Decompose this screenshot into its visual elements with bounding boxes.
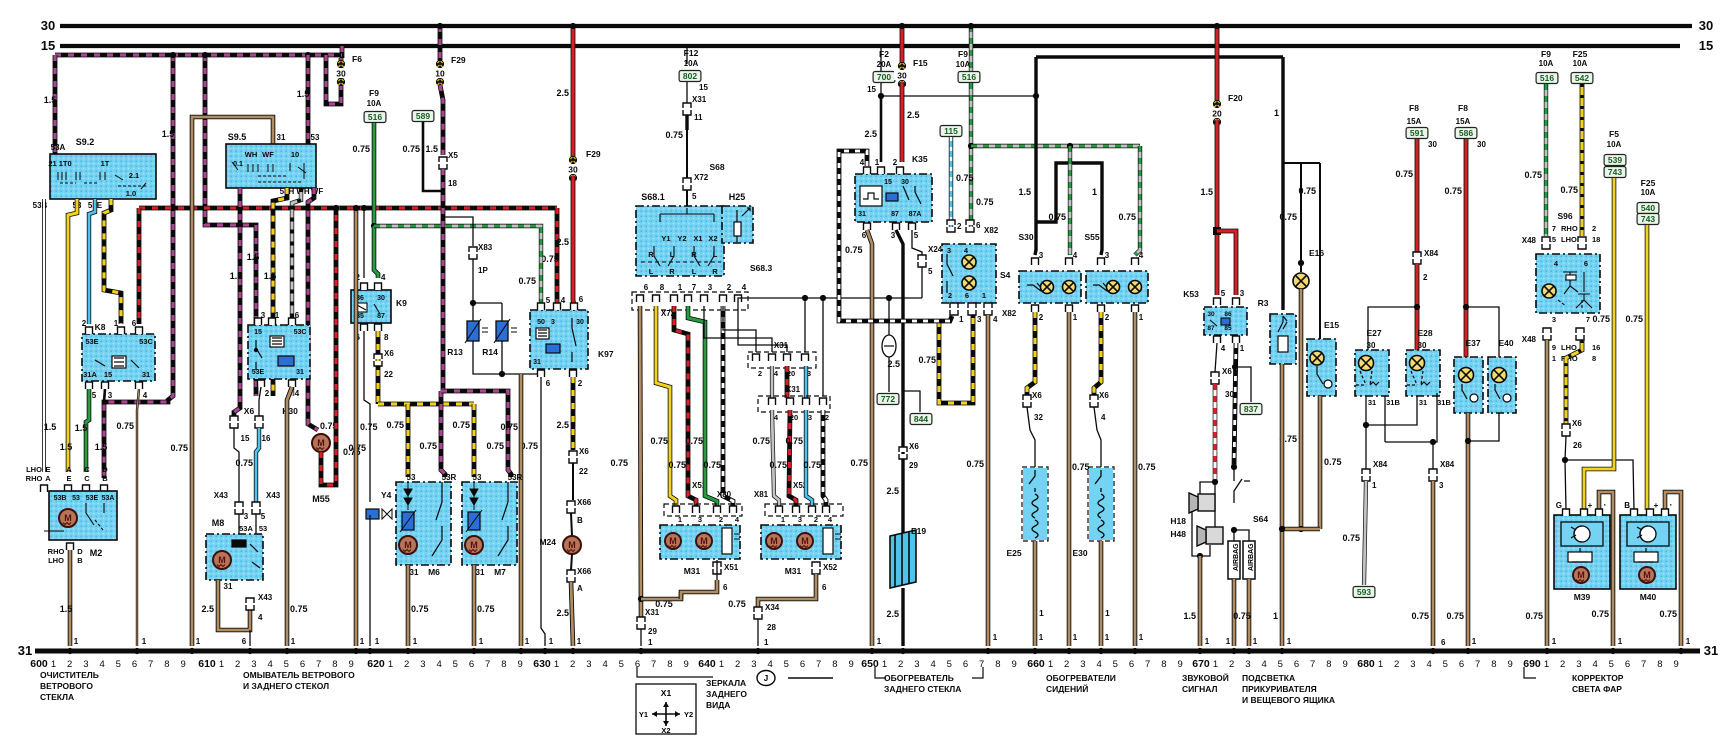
wire X83 to resistors: [473, 259, 502, 303]
connector X82-1: [950, 303, 958, 315]
wire link to X31-2 row2: [822, 298, 824, 396]
junction X84-3 bus: [1430, 648, 1436, 654]
wire striped to M7-53R: [441, 391, 511, 477]
connector X48-16: [1576, 328, 1584, 340]
pin K8-5: [86, 382, 93, 389]
svg-text:30: 30: [1207, 311, 1215, 318]
wire H18 ground: [1192, 511, 1200, 556]
junction S68-6 bus: [638, 648, 644, 654]
svg-text:ЗВУКОВОЙ: ЗВУКОВОЙ: [1182, 672, 1229, 683]
svg-text:B: B: [77, 556, 83, 565]
wire K35-6 tan to bus: [867, 230, 872, 646]
svg-text:6: 6: [469, 659, 474, 670]
svg-text:2: 2: [957, 222, 962, 231]
svg-text:4: 4: [295, 389, 300, 398]
pin K8-1: [118, 327, 125, 334]
svg-text:3: 3: [420, 659, 425, 670]
wire M7 ground tan: [472, 565, 477, 646]
svg-text:0.75: 0.75: [486, 441, 504, 451]
junction M6 bus: [405, 648, 411, 654]
svg-text:5: 5: [947, 659, 952, 670]
svg-text:X84: X84: [1424, 249, 1439, 258]
svg-text:1.5: 1.5: [44, 422, 57, 432]
svg-text:M2: M2: [90, 548, 103, 558]
wire S68-4 link long: [738, 298, 922, 306]
fuse F15 symbol: [894, 62, 910, 87]
E27 internal switch: [1356, 371, 1379, 385]
relay K30 box: [248, 325, 310, 379]
connector X6 E25: [1023, 395, 1031, 407]
svg-text:S68.1: S68.1: [641, 192, 665, 202]
fusebox 802: [679, 71, 701, 82]
svg-text:743: 743: [1608, 167, 1622, 177]
svg-text:5: 5: [1113, 659, 1118, 670]
junction link 805: [802, 295, 808, 301]
svg-text:539: 539: [1608, 155, 1622, 165]
svg-text:1: 1: [1073, 313, 1078, 322]
svg-text:53: 53: [72, 495, 80, 502]
wire K35-3 black to E19: [896, 230, 903, 536]
wire jumper red: [785, 366, 790, 398]
wire M24 to X66-A: [571, 554, 572, 570]
wire X51 tan hook: [681, 580, 717, 599]
svg-text:20: 20: [1212, 108, 1222, 118]
junction striped x308: [305, 52, 311, 58]
junction tan x356 bus: [353, 648, 359, 654]
wire M2 ground tan: [68, 550, 73, 646]
wire F2 thin right: [881, 95, 1036, 97]
svg-text:0.75: 0.75: [785, 436, 803, 446]
svg-text:X48: X48: [1522, 335, 1537, 344]
fusebox 516 left: [364, 112, 386, 123]
wire X6 to X66 B: [572, 463, 574, 500]
svg-text:9: 9: [683, 659, 688, 670]
fuse F29-2 symbol: [565, 156, 581, 181]
svg-text:18: 18: [448, 179, 457, 188]
svg-text:X6: X6: [1222, 367, 1232, 376]
svg-text:2.5: 2.5: [907, 110, 920, 120]
svg-text:X31: X31: [774, 341, 789, 350]
svg-text:0.75: 0.75: [419, 441, 437, 451]
svg-text:4: 4: [267, 659, 272, 670]
svg-text:30: 30: [377, 295, 385, 302]
svg-text:53: 53: [311, 133, 320, 142]
wire link to X31-3: [804, 298, 806, 352]
svg-text:0.75: 0.75: [402, 144, 420, 154]
svg-text:2.5: 2.5: [556, 88, 569, 98]
junction K30-4 bus: [284, 648, 290, 654]
wire horn red-white: [1213, 384, 1218, 482]
wire black feed right corner: [1281, 57, 1284, 310]
svg-text:4: 4: [602, 659, 607, 670]
junction E19 bus: [900, 648, 906, 654]
svg-text:8: 8: [332, 659, 337, 670]
junction X43-4 bus: [247, 648, 253, 654]
wire leveling to M39-G: [1565, 460, 1566, 510]
pin X31r2-4: [769, 398, 776, 405]
svg-text:600: 600: [30, 658, 48, 670]
connector X82-3: [968, 303, 976, 315]
relay K8 box: [82, 334, 155, 381]
svg-text:10A: 10A: [1539, 59, 1554, 68]
svg-text:0.75: 0.75: [665, 130, 683, 140]
svg-text:X1: X1: [661, 688, 672, 698]
svg-text:8: 8: [832, 659, 837, 670]
fusebox 539: [1604, 155, 1626, 166]
svg-text:1: 1: [648, 638, 653, 647]
wire E27-31 down: [1365, 396, 1367, 469]
wire leveling to M40-B: [1565, 460, 1634, 510]
wire F20 red from bus30: [1215, 26, 1220, 106]
svg-text:K35: K35: [912, 154, 928, 164]
wire S55-2 striped: [1094, 312, 1101, 395]
lamp E28 box: [1406, 350, 1440, 396]
svg-text:3: 3: [108, 391, 113, 400]
switch S30 box: [1019, 271, 1081, 303]
svg-text:0.75: 0.75: [116, 421, 134, 431]
pin K35-1: [878, 167, 885, 174]
junction E27 ground: [1363, 422, 1369, 428]
junction S64 top: [1231, 464, 1237, 470]
fusebox 743 b: [1637, 214, 1659, 225]
wire yellow drop M7-53: [472, 404, 477, 477]
wire X81-3 black-red: [789, 410, 796, 507]
svg-text:680: 680: [1357, 658, 1375, 670]
svg-text:31: 31: [224, 582, 233, 591]
wire X82-4 tan to bus: [986, 315, 991, 646]
svg-text:1: 1: [1552, 354, 1556, 363]
svg-text:31: 31: [142, 370, 150, 379]
svg-text:X82: X82: [984, 226, 999, 235]
svg-text:0.1: 0.1: [233, 161, 243, 168]
svg-text:700: 700: [877, 72, 891, 82]
svg-text:5: 5: [1609, 659, 1614, 670]
junction link 889: [886, 295, 892, 301]
junction airbag1 bus: [1231, 648, 1237, 654]
connector X51: [713, 562, 721, 574]
S9.5 internal contacts: [232, 162, 306, 182]
junction airbag split: [1231, 527, 1237, 533]
svg-text:0.75: 0.75: [650, 436, 668, 446]
S30 internal switch: [1027, 283, 1044, 291]
pin S68-2: [720, 295, 727, 302]
lamp S4 lower: [962, 276, 976, 290]
svg-text:87: 87: [377, 313, 385, 320]
svg-text:M40: M40: [1640, 592, 1657, 602]
svg-text:S4: S4: [1000, 270, 1011, 280]
svg-text:1: 1: [291, 637, 296, 646]
svg-text:4: 4: [258, 613, 263, 622]
svg-text:0.75: 0.75: [1592, 314, 1610, 324]
svg-text:8: 8: [1491, 659, 1496, 670]
connector strip S68 bottom: [632, 292, 748, 310]
svg-text:8: 8: [164, 659, 169, 670]
svg-text:И ВЕЩЕВОГО ЯЩИКА: И ВЕЩЕВОГО ЯЩИКА: [1242, 695, 1335, 705]
motor M6 symbol: [399, 536, 417, 554]
svg-text:X34: X34: [765, 603, 780, 612]
caption washer: [243, 670, 355, 691]
junction leveling split: [1562, 457, 1568, 463]
svg-text:30: 30: [1428, 140, 1437, 149]
svg-text:1: 1: [1372, 481, 1377, 490]
wire S9.5-31 tan loop to bus: [192, 117, 273, 646]
wire horn to H18: [1200, 482, 1215, 496]
svg-text:26: 26: [1573, 441, 1582, 450]
wire K35-4 black-white striped: [839, 151, 952, 321]
svg-text:1.5: 1.5: [425, 144, 438, 154]
svg-text:2.5: 2.5: [556, 608, 569, 618]
svg-text:1: 1: [1552, 637, 1557, 646]
relay K35 box: [855, 174, 932, 222]
pin S55-4: [1132, 258, 1139, 265]
svg-text:591: 591: [1410, 128, 1424, 138]
svg-text:15: 15: [41, 38, 55, 53]
connector X66-B: [567, 501, 575, 513]
legend J oval: [757, 671, 833, 686]
junction horn ground: [1197, 553, 1203, 559]
heater E30 fill: [1089, 468, 1113, 540]
svg-text:C: C: [84, 465, 90, 474]
svg-text:6: 6: [1584, 259, 1588, 268]
wire resistor bottoms: [473, 341, 541, 374]
svg-text:1.5: 1.5: [44, 95, 57, 105]
M2 internal switch: [44, 503, 104, 531]
svg-text:СИДЕНИЙ: СИДЕНИЙ: [1046, 683, 1088, 694]
svg-text:X31: X31: [786, 385, 801, 394]
svg-text:X6: X6: [384, 349, 394, 358]
svg-text:9: 9: [1177, 659, 1182, 670]
svg-text:5: 5: [914, 231, 919, 240]
svg-text:1: 1: [1139, 633, 1144, 642]
svg-text:0.75: 0.75: [500, 422, 518, 432]
svg-text:2: 2: [758, 369, 762, 378]
pin K30-6: [289, 318, 296, 325]
svg-text:X81: X81: [754, 490, 769, 499]
svg-text:D: D: [77, 547, 83, 556]
wire green-gray to S30-4: [1068, 146, 1072, 255]
wire F20 red to K53-5: [1215, 120, 1220, 295]
wire S68-2 link: [723, 306, 756, 352]
junction E28 31B: [1430, 439, 1436, 445]
wire X43-3 to M8: [238, 514, 240, 534]
svg-text:M: M: [218, 555, 226, 565]
indicator oval symbol: [882, 335, 896, 357]
junction bus30 F29-1: [437, 23, 443, 29]
svg-text:X6: X6: [1572, 419, 1582, 428]
svg-text:87: 87: [1207, 325, 1215, 332]
wire S55-1 tan: [1133, 312, 1138, 646]
svg-text:5: 5: [928, 267, 933, 276]
svg-text:3: 3: [1080, 659, 1085, 670]
wire K97-2 yellow-black: [571, 377, 576, 450]
svg-text:0.75: 0.75: [235, 458, 253, 468]
wire green-gray to K97-5: [374, 226, 541, 305]
svg-text:30: 30: [901, 179, 909, 186]
svg-text:B: B: [577, 516, 583, 525]
fuse F6 symbol: [333, 60, 349, 85]
wire X34 to bus: [757, 619, 759, 646]
svg-text:8: 8: [1326, 659, 1331, 670]
heater E30 box: [1088, 467, 1114, 541]
svg-text:11: 11: [694, 113, 703, 122]
wire link 787: [738, 306, 787, 352]
svg-text:516: 516: [962, 72, 976, 82]
svg-text:L: L: [649, 267, 654, 276]
svg-text:AIRBAG: AIRBAG: [1233, 543, 1240, 571]
connector X34: [754, 607, 762, 619]
svg-text:7: 7: [1145, 659, 1150, 670]
connector X83: [469, 247, 477, 259]
svg-text:1.5: 1.5: [297, 89, 310, 99]
svg-text:E30: E30: [1072, 548, 1087, 558]
label box AIRBAG 2: [1243, 541, 1255, 579]
svg-text:1.5: 1.5: [60, 604, 73, 614]
svg-text:0.75: 0.75: [477, 604, 495, 614]
svg-text:R: R: [648, 250, 654, 259]
svg-text:660: 660: [1027, 658, 1045, 670]
svg-text:1.5: 1.5: [1018, 187, 1031, 197]
wire yellow horizontal: [378, 402, 474, 407]
pin X81-3: [793, 506, 800, 513]
svg-text:1P: 1P: [478, 266, 488, 275]
pin M2-E: [41, 485, 48, 492]
fusebox 700: [873, 72, 895, 83]
wire to X84-3: [1432, 442, 1434, 469]
svg-text:0.75: 0.75: [518, 276, 536, 286]
svg-text:E16: E16: [1309, 248, 1324, 258]
junction K97-31 bus: [542, 648, 548, 654]
svg-text:X66: X66: [577, 498, 592, 507]
svg-text:15: 15: [699, 83, 708, 92]
svg-text:X52: X52: [823, 563, 838, 572]
svg-text:30: 30: [568, 164, 578, 174]
svg-text:30: 30: [1699, 18, 1713, 33]
svg-text:6: 6: [965, 291, 969, 300]
svg-text:30: 30: [897, 70, 907, 80]
wire F12 thick segment: [685, 115, 688, 130]
svg-text:X2: X2: [661, 726, 670, 735]
svg-text:M7: M7: [494, 567, 506, 577]
wire tan link E15 R3: [1282, 527, 1320, 532]
svg-text:4: 4: [1221, 344, 1226, 353]
pin M39-plus: [1581, 509, 1588, 516]
wire M8 ground tan: [218, 580, 250, 630]
svg-text:И ЗАДНЕГО СТЕКОЛ: И ЗАДНЕГО СТЕКОЛ: [243, 681, 329, 691]
M7 internal switch: [498, 482, 508, 556]
svg-text:1: 1: [142, 637, 147, 646]
wire S68-7 green: [688, 306, 717, 507]
junction tan x521 bus: [518, 648, 524, 654]
svg-text:СВЕТА ФАР: СВЕТА ФАР: [1572, 684, 1622, 694]
wire X84-2 red down: [1415, 264, 1420, 350]
M40 headlight symbol: [1627, 522, 1669, 546]
R3 internal symbol: [1278, 316, 1288, 352]
svg-text:R3: R3: [1258, 298, 1269, 308]
svg-text:7: 7: [816, 659, 821, 670]
svg-text:4: 4: [767, 659, 772, 670]
connector X43-5: [252, 502, 260, 514]
junction E40 feed: [1463, 304, 1469, 310]
wire 53 feed red-black horizontal: [139, 206, 557, 211]
svg-text:1: 1: [1240, 344, 1245, 353]
switch S64 symbol: [1234, 467, 1250, 503]
wire F25b yellow down: [1645, 225, 1650, 510]
svg-text:0.75: 0.75: [752, 436, 770, 446]
svg-text:M24: M24: [539, 537, 556, 547]
motor M2 symbol: [59, 509, 77, 527]
svg-text:K8: K8: [95, 322, 106, 332]
wire striped drop to S9.5-53: [306, 55, 311, 145]
wire defogger feed horizontal: [1036, 55, 1283, 58]
svg-text:1.5: 1.5: [1183, 611, 1196, 621]
pin X81-4: [823, 506, 830, 513]
lamp E15 box: [1307, 339, 1336, 396]
wire striped drop to S9.2-53A: [53, 55, 58, 155]
lamp E37 box: [1454, 357, 1483, 413]
svg-text:F12: F12: [684, 48, 699, 58]
svg-text:LHO: LHO: [48, 556, 64, 565]
svg-text:0.75: 0.75: [966, 459, 984, 469]
svg-text:0.75: 0.75: [728, 599, 746, 609]
svg-text:16: 16: [262, 434, 271, 443]
junction 837 tee: [1232, 364, 1238, 370]
svg-text:1: 1: [678, 515, 682, 524]
svg-text:0.75: 0.75: [1342, 533, 1360, 543]
pin S30-4: [1066, 258, 1073, 265]
K35 internal symbol: [860, 186, 921, 206]
svg-text:2.5: 2.5: [201, 604, 214, 614]
pin K30-2: [258, 380, 265, 387]
fusebox 844: [910, 414, 932, 425]
M7 thermal resistor: [468, 512, 480, 530]
svg-text:7: 7: [148, 659, 153, 670]
heater element E19: [890, 530, 916, 588]
svg-text:F29: F29: [586, 149, 601, 159]
junction S30-1 bus: [1066, 648, 1072, 654]
svg-text:8: 8: [384, 333, 389, 342]
svg-text:S9.5: S9.5: [228, 132, 247, 142]
svg-text:31A: 31A: [83, 370, 97, 379]
svg-text:0.75: 0.75: [1444, 186, 1462, 196]
svg-text:1: 1: [764, 638, 769, 647]
svg-text:3: 3: [891, 231, 896, 240]
connector X48-2: [1578, 237, 1586, 249]
wire E16 tan down: [1299, 289, 1304, 529]
wire F2 stub: [880, 46, 882, 71]
wire K9-8 yellow-black down: [376, 331, 381, 404]
M39 potentiometer: [1568, 548, 1592, 562]
svg-text:5: 5: [1443, 659, 1448, 670]
svg-text:21 1T0: 21 1T0: [48, 159, 71, 168]
svg-text:X66: X66: [577, 567, 592, 576]
wire X5 down: [441, 169, 446, 388]
svg-text:1: 1: [1544, 659, 1549, 670]
junction M24 bus: [570, 648, 576, 654]
svg-text:B: B: [102, 474, 108, 483]
caption wiper: [40, 670, 99, 702]
svg-text:ВИДА: ВИДА: [706, 700, 730, 710]
wire E28-31B link: [1385, 393, 1437, 442]
svg-text:9: 9: [848, 659, 853, 670]
svg-text:8: 8: [1592, 354, 1596, 363]
svg-text:WH: WH: [245, 150, 258, 159]
pin K53-4: [1214, 336, 1221, 343]
svg-text:M: M: [317, 438, 325, 448]
pin M2 bottom: [67, 543, 74, 550]
svg-text:9: 9: [348, 659, 353, 670]
svg-text:3: 3: [83, 659, 88, 670]
svg-text:6: 6: [822, 583, 827, 592]
